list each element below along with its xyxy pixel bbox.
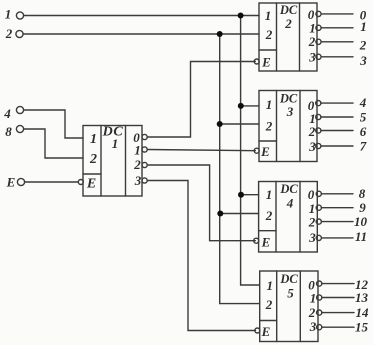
DC5 output bubble 0 [317,281,322,286]
svg-text:1: 1 [310,291,317,306]
svg-text:DC: DC [279,3,298,17]
wire DC5 out3 [322,326,354,328]
input terminal E [17,178,24,185]
svg-text:E: E [261,55,271,70]
junction bus2-DC2 [217,31,223,37]
input terminal 4 [16,106,23,113]
DC3 output bubble 0 [316,101,321,106]
svg-text:2: 2 [265,297,273,312]
bus wire input2 vertical [220,34,260,304]
junction bus2-DC4 [217,211,223,217]
svg-text:4: 4 [286,196,294,211]
svg-text:3: 3 [308,50,316,65]
svg-text:2: 2 [265,27,273,42]
DC4 output bubble 1 [316,205,321,210]
junction bus2-DC3 [217,121,223,127]
svg-text:11: 11 [355,229,367,244]
decoder DC3 body [259,91,317,162]
wire DC4 out1 [321,207,353,209]
svg-text:10: 10 [354,214,368,229]
wire input 1 to DC2 pin 1 [24,15,259,17]
svg-text:3: 3 [134,173,142,188]
DC1 enable bubble [78,180,83,185]
svg-text:1: 1 [134,143,141,158]
wire DC3 out0 [321,102,353,104]
DC2 output bubble 2 [316,39,321,44]
wire DC1 out1 to DC3 E [147,150,255,151]
svg-text:2: 2 [265,208,273,223]
svg-text:3: 3 [309,319,317,334]
svg-text:2: 2 [308,124,316,139]
svg-text:1: 1 [5,7,12,22]
svg-text:15: 15 [355,320,369,335]
svg-text:2: 2 [265,119,273,134]
DC1 output bubble 3 [142,178,147,183]
wire DC3 out2 [321,130,353,132]
svg-text:2: 2 [359,38,367,53]
svg-text:1: 1 [265,8,272,23]
wire DC5 out2 [322,312,354,314]
DC5 output bubble 3 [317,325,322,330]
svg-text:DC: DC [279,182,298,196]
wire DC2 out1 [321,27,353,29]
DC3 enable bubble [254,148,259,153]
DC1 output bubble 0 [142,134,147,139]
svg-text:DC: DC [279,272,298,286]
wire input 2 to DC2 pin 2 [23,33,259,35]
wire DC2 out3 [321,56,353,58]
wire DC1 out0 to DC2 E [147,62,255,138]
wire bus2 to DC4 pin 2 [220,213,259,215]
svg-text:1: 1 [266,97,273,112]
svg-text:9: 9 [359,200,366,215]
wire DC4 out3 [321,237,353,239]
DC3 output bubble 2 [316,128,321,133]
svg-text:5: 5 [287,286,294,301]
wire DC1 out2 to DC4 E [147,165,255,241]
svg-text:3: 3 [308,230,316,245]
DC2 output bubble 1 [316,25,321,30]
DC5 enable bubble [255,328,260,333]
svg-text:2: 2 [5,26,13,41]
wire input 8 to DC1 pin 2 [24,129,83,158]
DC1 output bubble 1 [142,147,147,152]
DC4 output bubble 3 [316,235,321,240]
svg-text:3: 3 [359,53,367,68]
DC3 output bubble 1 [316,114,321,119]
wire DC3 out3 [321,145,353,147]
DC2 enable bubble [254,59,259,64]
svg-text:2: 2 [284,16,292,31]
svg-text:4: 4 [359,95,367,110]
svg-text:2: 2 [89,152,97,167]
decoder DC5 body [260,271,318,342]
svg-text:1: 1 [112,136,119,151]
decoder DC4 body [259,182,318,253]
svg-text:5: 5 [360,110,367,125]
svg-text:E: E [6,175,16,190]
junction bus1-DC3 [238,103,244,109]
svg-text:6: 6 [360,124,367,139]
svg-text:1: 1 [266,278,273,293]
svg-text:14: 14 [356,305,370,320]
DC4 output bubble 2 [316,219,321,224]
decoder DC2 body [259,3,317,71]
svg-text:3: 3 [286,104,294,119]
DC5 output bubble 2 [317,310,322,315]
wire input 4 to DC1 pin 1 [24,110,83,138]
DC4 output bubble 0 [316,191,321,196]
input terminal 1 [16,12,23,19]
svg-text:4: 4 [3,106,11,121]
svg-text:1: 1 [90,132,97,147]
svg-text:3: 3 [308,139,316,154]
wire DC2 out2 [321,41,353,43]
wire DC4 out0 [321,193,353,195]
wire bus2 to DC3 pin 2 [220,123,259,125]
input terminal 2 [16,30,23,37]
DC2 output bubble 0 [316,11,321,16]
wire DC4 out2 [321,221,353,223]
svg-text:1: 1 [266,187,273,202]
svg-text:1: 1 [360,19,367,34]
wire bus1 to DC4 pin 1 [241,194,259,196]
svg-text:E: E [261,324,271,339]
svg-text:7: 7 [360,139,367,154]
input terminal 8 [16,125,23,132]
wire input E to DC1 pin E [25,181,79,183]
DC4 enable bubble [254,238,259,243]
decoder DC1 body [83,126,142,197]
svg-text:E: E [86,177,96,192]
svg-text:0: 0 [308,187,315,202]
wire DC5 out0 [322,283,354,285]
DC3 output bubble 3 [316,143,321,148]
svg-text:8: 8 [359,186,366,201]
svg-text:2: 2 [308,34,316,49]
DC5 output bubble 1 [317,295,322,300]
junction bus1-DC2 [238,13,244,19]
svg-text:13: 13 [355,290,369,305]
bus wire input1 vertical [241,16,260,286]
DC2 output bubble 3 [316,54,321,59]
svg-text:2: 2 [133,157,141,172]
svg-text:E: E [260,144,270,159]
wire DC1 out3 to DC5 E [147,181,255,331]
DC1 output bubble 2 [142,162,147,167]
svg-text:8: 8 [5,124,12,139]
svg-text:2: 2 [308,305,316,320]
wire DC2 out0 [321,13,353,15]
wire DC5 out1 [322,297,354,299]
junction bus1-DC4 [238,192,244,198]
wire DC3 out1 [321,116,353,118]
svg-text:E: E [261,235,271,250]
wire bus1 to DC3 pin 1 [241,105,259,107]
svg-text:2: 2 [308,215,316,230]
